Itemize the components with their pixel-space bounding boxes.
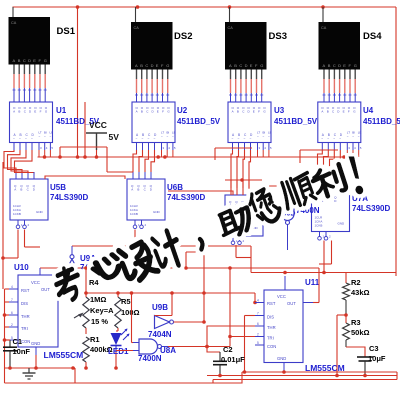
svg-text:U10: U10 — [14, 263, 29, 272]
wire riser x204 — [203, 252, 205, 322]
seven-seg display DS3 — [225, 7, 267, 102]
svg-text:~: ~ — [232, 137, 234, 141]
svg-text:B: B — [18, 109, 20, 113]
svg-text:U8A: U8A — [160, 346, 176, 355]
svg-text:DIS: DIS — [267, 315, 274, 320]
NAND gate U8B 7400N — [281, 199, 294, 250]
wire U11 dis drop — [245, 315, 256, 317]
svg-text:7: 7 — [257, 312, 259, 316]
IC U6B 74LS390D — [127, 179, 165, 229]
svg-text:VCC: VCC — [89, 120, 107, 130]
wire carry U5B-U6B — [45, 176, 125, 179]
svg-text:~: ~ — [263, 134, 265, 138]
svg-text:1CKB: 1CKB — [130, 212, 138, 216]
wire U10 gnd drop — [35, 355, 37, 368]
svg-text:~: ~ — [25, 137, 27, 141]
seven-seg display DS4 — [319, 7, 361, 102]
svg-text:7400N: 7400N — [138, 354, 162, 363]
svg-text:C3: C3 — [369, 344, 379, 353]
wire clock distribution — [60, 146, 107, 148]
wire feedback nest column 2 — [133, 150, 155, 179]
wire R2-R3 branch — [337, 314, 346, 316]
svg-text:~: ~ — [31, 137, 33, 141]
svg-text:74LS390D: 74LS390D — [352, 204, 390, 213]
svg-text:CA: CA — [321, 26, 327, 30]
VCC power symbol 5V — [86, 120, 119, 157]
svg-text:A: A — [229, 63, 232, 68]
svg-text:E: E — [157, 109, 159, 113]
svg-text:4511BD_5V: 4511BD_5V — [177, 117, 221, 126]
svg-text:B: B — [141, 109, 143, 113]
wire bottom rail B — [207, 375, 397, 377]
svg-text:F: F — [40, 109, 42, 113]
wire midband rail col4 — [300, 149, 338, 151]
svg-text:C: C — [239, 63, 242, 68]
svg-text:THR: THR — [21, 314, 30, 319]
junction dots on bus — [136, 5, 140, 9]
svg-text:R1: R1 — [90, 335, 100, 344]
wire right edge drop — [395, 7, 397, 276]
svg-text:R2: R2 — [351, 278, 361, 287]
wire link 257 — [236, 257, 251, 259]
IC U10 LM555CM — [9, 268, 65, 355]
wire U11 top rail — [251, 272, 396, 274]
svg-text:1CKB: 1CKB — [13, 212, 21, 216]
svg-text:E: E — [156, 63, 159, 68]
svg-text:C: C — [23, 58, 26, 63]
svg-text:~: ~ — [167, 134, 169, 138]
svg-text:4: 4 — [11, 285, 13, 289]
svg-text:U3: U3 — [274, 106, 285, 115]
capacitor C1 10nF — [3, 340, 17, 368]
svg-text:~: ~ — [250, 137, 252, 141]
wire U9B in — [171, 293, 173, 316]
wire bottom rail C — [213, 379, 397, 381]
svg-text:6: 6 — [257, 322, 259, 326]
svg-text:E: E — [343, 63, 346, 68]
watermark calligraphy — [52, 155, 366, 303]
svg-text:DS3: DS3 — [269, 31, 287, 42]
svg-text:~: ~ — [50, 134, 52, 138]
svg-text:U7A: U7A — [352, 194, 368, 203]
inverter U9A 7404N — [66, 246, 79, 278]
svg-text:~: ~ — [352, 134, 354, 138]
wire carry U6B-mid — [168, 191, 233, 195]
svg-text:C: C — [333, 63, 336, 68]
wire U9B out — [174, 321, 205, 323]
svg-text:B: B — [322, 199, 324, 203]
resistor R3 50k — [345, 315, 347, 323]
wire bottom loop — [75, 368, 242, 383]
wire mid drop to out rail — [229, 268, 231, 347]
wire U11 out riser — [313, 302, 319, 304]
svg-text:LM555CM: LM555CM — [44, 350, 84, 360]
svg-text:D: D — [338, 63, 341, 68]
wire U10 vcc rail — [40, 267, 319, 269]
wire pot column — [85, 268, 87, 297]
svg-text:B: B — [327, 109, 329, 113]
svg-text:GND: GND — [338, 222, 346, 226]
wire carry mid-U7A — [262, 186, 318, 191]
svg-text:G: G — [44, 58, 47, 63]
svg-text:B: B — [328, 63, 331, 68]
svg-text:C1: C1 — [13, 337, 23, 346]
svg-text:F: F — [162, 109, 164, 113]
svg-text:B: B — [20, 187, 22, 191]
svg-text:A: A — [131, 187, 133, 191]
svg-text:~: ~ — [358, 134, 360, 138]
potentiometer R4 1M — [74, 297, 89, 328]
svg-text:F: F — [258, 109, 260, 113]
svg-text:0.01μF: 0.01μF — [221, 355, 245, 364]
svg-text:4511BD_5V: 4511BD_5V — [274, 117, 318, 126]
svg-text:1CKB: 1CKB — [315, 224, 323, 228]
svg-text:50kΩ: 50kΩ — [351, 328, 370, 337]
svg-text:74LS390D: 74LS390D — [50, 193, 88, 202]
svg-text:E: E — [253, 109, 255, 113]
svg-text:U11: U11 — [305, 278, 320, 287]
svg-text:10μF: 10μF — [368, 354, 386, 363]
svg-text:7400N: 7400N — [296, 206, 320, 215]
svg-text:D: D — [245, 63, 248, 68]
svg-text:VCC: VCC — [277, 294, 286, 299]
IC U1 4511BD_5V — [10, 102, 54, 157]
svg-text:RST: RST — [21, 288, 30, 293]
wire U8A out — [168, 346, 207, 348]
svg-text:R4: R4 — [89, 278, 99, 287]
svg-text:A: A — [232, 109, 234, 113]
NAND gate U8A 7400N — [133, 339, 168, 354]
wire left drop upper — [2, 162, 4, 289]
svg-text:Key=A: Key=A — [90, 306, 114, 315]
seven-seg display DS2 — [131, 7, 173, 102]
svg-text:U2: U2 — [177, 106, 188, 115]
svg-text:C2: C2 — [223, 345, 233, 354]
svg-text:~: ~ — [142, 137, 144, 141]
resistor R1 400k — [83, 337, 89, 362]
svg-text:1MΩ: 1MΩ — [90, 295, 106, 304]
svg-text:DS1: DS1 — [57, 26, 76, 37]
svg-text:~: ~ — [39, 134, 41, 138]
wire U8A in2 from LED — [116, 350, 133, 352]
wire feedback nest column 4 — [318, 150, 341, 191]
svg-text:~: ~ — [347, 134, 349, 138]
svg-text:A: A — [323, 63, 326, 68]
wire U10 left rail — [4, 289, 6, 368]
svg-text:4: 4 — [257, 299, 259, 303]
svg-text:~: ~ — [244, 137, 246, 141]
wire U5B drops — [17, 230, 19, 259]
svg-text:RST: RST — [267, 301, 276, 306]
wire link 252 — [186, 251, 204, 253]
svg-text:~: ~ — [172, 134, 174, 138]
svg-text:~: ~ — [339, 137, 341, 141]
svg-text:10nF: 10nF — [13, 347, 31, 356]
svg-text:LED1: LED1 — [108, 347, 129, 356]
svg-text:A: A — [135, 63, 138, 68]
wire U11 tri link — [230, 336, 255, 338]
svg-text:TRI: TRI — [267, 336, 274, 341]
svg-text:7404N: 7404N — [148, 330, 172, 339]
svg-text:4511BD_5V: 4511BD_5V — [363, 117, 400, 126]
svg-text:~: ~ — [161, 134, 163, 138]
LED1 — [111, 328, 130, 370]
svg-text:B: B — [137, 187, 139, 191]
svg-text:B: B — [234, 63, 237, 68]
wire bus drop to VCC rail — [77, 7, 79, 157]
svg-text:GND: GND — [31, 341, 40, 346]
IC U6A 74LS390D — [225, 195, 263, 245]
wire VCC rail — [38, 156, 358, 158]
svg-text:E: E — [250, 63, 253, 68]
svg-text:~: ~ — [333, 137, 335, 141]
svg-text:CA: CA — [134, 26, 140, 30]
svg-text:A: A — [321, 109, 323, 113]
svg-text:6: 6 — [11, 311, 13, 315]
svg-text:CA: CA — [228, 26, 234, 30]
svg-text:R3: R3 — [351, 318, 361, 327]
svg-text:5V: 5V — [109, 132, 120, 142]
svg-text:5: 5 — [257, 341, 259, 345]
IC U3 4511BD_5V — [228, 102, 272, 157]
wire feedback nest column 3 — [231, 150, 251, 195]
svg-text:R5: R5 — [121, 297, 131, 306]
svg-text:~: ~ — [19, 137, 21, 141]
IC U5B 74LS390D — [10, 179, 48, 229]
inverter U9B 7404N — [155, 316, 174, 329]
IC U2 4511BD_5V — [132, 102, 176, 157]
svg-text:B: B — [235, 203, 237, 207]
wire feedback nest column 1 — [4, 150, 34, 179]
svg-text:U4: U4 — [363, 106, 374, 115]
wire riser x186 — [185, 252, 187, 268]
svg-text:OUT: OUT — [287, 301, 296, 306]
svg-text:C: C — [145, 63, 148, 68]
svg-text:~: ~ — [44, 134, 46, 138]
wire RST riser — [254, 293, 256, 303]
svg-text:15 %: 15 % — [91, 317, 108, 326]
wire U7A drops — [323, 241, 325, 273]
svg-text:A: A — [14, 187, 16, 191]
svg-text:A: A — [229, 203, 231, 207]
wire U7A top links — [315, 182, 340, 184]
svg-text:THR: THR — [267, 325, 276, 330]
wire U6B drop — [134, 230, 136, 269]
svg-text:OUT: OUT — [41, 287, 50, 292]
wire midband rail col3 — [215, 147, 252, 149]
svg-text:TRI: TRI — [21, 326, 28, 331]
svg-text:D: D — [151, 63, 154, 68]
svg-text:~: ~ — [321, 137, 323, 141]
wire U9A input to U10 OUT — [65, 278, 72, 288]
svg-text:7: 7 — [11, 298, 13, 302]
svg-text:A: A — [136, 109, 138, 113]
svg-text:DS4: DS4 — [363, 31, 382, 42]
svg-text:GND: GND — [153, 210, 161, 214]
svg-text:A: A — [13, 109, 15, 113]
svg-text:~: ~ — [148, 137, 150, 141]
svg-text:CA: CA — [11, 21, 17, 25]
svg-text:E: E — [33, 58, 36, 63]
svg-text:B: B — [237, 109, 239, 113]
svg-text:~: ~ — [13, 137, 15, 141]
wire top bus — [13, 6, 397, 8]
svg-text:G: G — [354, 63, 357, 68]
wire U9A out rail — [72, 245, 251, 247]
svg-text:U5B: U5B — [50, 183, 66, 192]
ground — [23, 368, 36, 379]
svg-text:74LS390D: 74LS390D — [167, 193, 205, 202]
svg-text:E: E — [343, 109, 345, 113]
svg-text:G: G — [166, 63, 169, 68]
resistor R2 43k — [345, 273, 347, 284]
svg-text:VCC: VCC — [31, 280, 40, 285]
wire U11 thr to C2 — [207, 326, 255, 352]
svg-text:2: 2 — [257, 333, 259, 337]
svg-text:2: 2 — [11, 323, 13, 327]
svg-text:CON: CON — [21, 339, 30, 344]
svg-text:~: ~ — [238, 137, 240, 141]
wire bottom loop left — [4, 368, 6, 383]
svg-text:A: A — [13, 58, 16, 63]
seven-seg display DS1 — [9, 7, 51, 102]
svg-text:B: B — [140, 63, 143, 68]
svg-text:D: D — [28, 58, 31, 63]
wire U11 left riser — [250, 246, 252, 273]
svg-text:DS2: DS2 — [174, 31, 192, 42]
svg-text:GND: GND — [277, 356, 286, 361]
svg-text:GND: GND — [251, 226, 259, 230]
svg-text:~: ~ — [154, 137, 156, 141]
svg-text:~: ~ — [136, 137, 138, 141]
wire bottom left rail — [5, 367, 76, 369]
svg-text:E: E — [34, 109, 36, 113]
svg-text:F: F — [348, 109, 350, 113]
svg-text:G: G — [260, 63, 263, 68]
svg-text:CON: CON — [267, 344, 276, 349]
svg-text:B: B — [18, 58, 21, 63]
svg-text:DIS: DIS — [21, 301, 28, 306]
svg-text:43kΩ: 43kΩ — [351, 288, 370, 297]
IC U11 LM555CM — [255, 276, 313, 372]
wire pot top rail — [86, 292, 255, 294]
svg-text:~: ~ — [268, 134, 270, 138]
svg-text:~: ~ — [257, 134, 259, 138]
resistor R5 100 — [115, 297, 121, 328]
wire U8A in1 — [131, 293, 133, 343]
wire right joins — [396, 372, 398, 380]
svg-text:~: ~ — [327, 137, 329, 141]
svg-text:U1: U1 — [56, 106, 67, 115]
IC U7A 74LS390D — [312, 191, 350, 241]
svg-text:GND: GND — [36, 210, 44, 214]
svg-text:100Ω: 100Ω — [121, 308, 140, 317]
wire stub x85 — [84, 102, 86, 157]
wire mid390 top rail — [225, 179, 262, 181]
capacitor C2 0.01uF — [213, 352, 227, 376]
capacitor C3 10uF — [357, 357, 373, 376]
IC U4 4511BD_5V — [318, 102, 362, 157]
wire bottom rail A — [242, 371, 397, 373]
wire R3 to C3 — [346, 347, 365, 357]
svg-text:U9B: U9B — [152, 303, 168, 312]
